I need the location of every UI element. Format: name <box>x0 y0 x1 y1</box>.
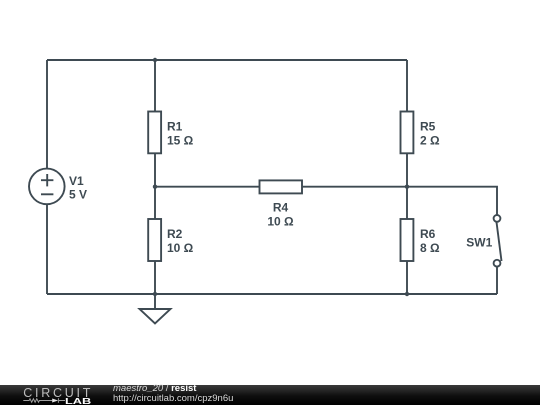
svg-text:V1: V1 <box>69 174 84 188</box>
wire node B to SW1 <box>407 187 497 215</box>
wire R1 bottom lead <box>154 153 156 186</box>
wire left vertical bottom (V1 to bottom rail) <box>46 204 48 294</box>
wire bottom rail <box>47 293 497 295</box>
wire R6 top lead <box>406 187 408 219</box>
svg-text:8 Ω: 8 Ω <box>420 241 440 255</box>
svg-text:R5: R5 <box>420 120 436 134</box>
wire R6 bottom lead <box>406 261 408 294</box>
resistor R1 <box>148 112 161 154</box>
junction dot node at R1 top <box>153 58 157 62</box>
wire left vertical top (top rail to V1) <box>46 60 48 169</box>
svg-text:R4: R4 <box>273 201 289 215</box>
junction dot ground node <box>153 292 157 296</box>
wire R2 top lead <box>154 187 156 219</box>
footer text <box>113 384 233 404</box>
wire R2 bottom lead <box>154 261 156 294</box>
wire R5 top lead <box>406 60 408 112</box>
CircuitLab logo <box>0 384 108 406</box>
resistor R6 <box>401 219 414 261</box>
wire R5 bottom lead <box>406 153 408 186</box>
svg-text:R6: R6 <box>420 227 436 241</box>
svg-text:5 V: 5 V <box>69 188 87 202</box>
wire R4 to node B <box>302 186 407 188</box>
voltage source V1 <box>29 169 65 205</box>
wire middle rail left (node A to R4) <box>155 186 260 188</box>
resistor R5 <box>401 112 414 154</box>
resistor R4 <box>260 180 303 193</box>
wire top rail <box>47 59 407 61</box>
resistor R2 <box>148 219 161 261</box>
svg-text:R2: R2 <box>167 227 183 241</box>
svg-text:SW1: SW1 <box>466 236 492 250</box>
switch SW1 <box>494 215 502 267</box>
wire SW1 bottom lead <box>496 267 498 294</box>
junction dot node B (R5/R6/middle rail) <box>405 185 409 189</box>
svg-text:15 Ω: 15 Ω <box>167 133 194 147</box>
footer bar <box>0 385 540 406</box>
svg-text:10 Ω: 10 Ω <box>167 241 194 255</box>
svg-text:R1: R1 <box>167 120 183 134</box>
junction dot node A (R1/R2/R4) <box>153 185 157 189</box>
wire R1 top lead <box>154 60 156 112</box>
junction dot R6 bottom <box>405 292 409 296</box>
ground <box>140 294 171 324</box>
svg-text:10 Ω: 10 Ω <box>267 214 294 228</box>
svg-text:2 Ω: 2 Ω <box>420 133 440 147</box>
